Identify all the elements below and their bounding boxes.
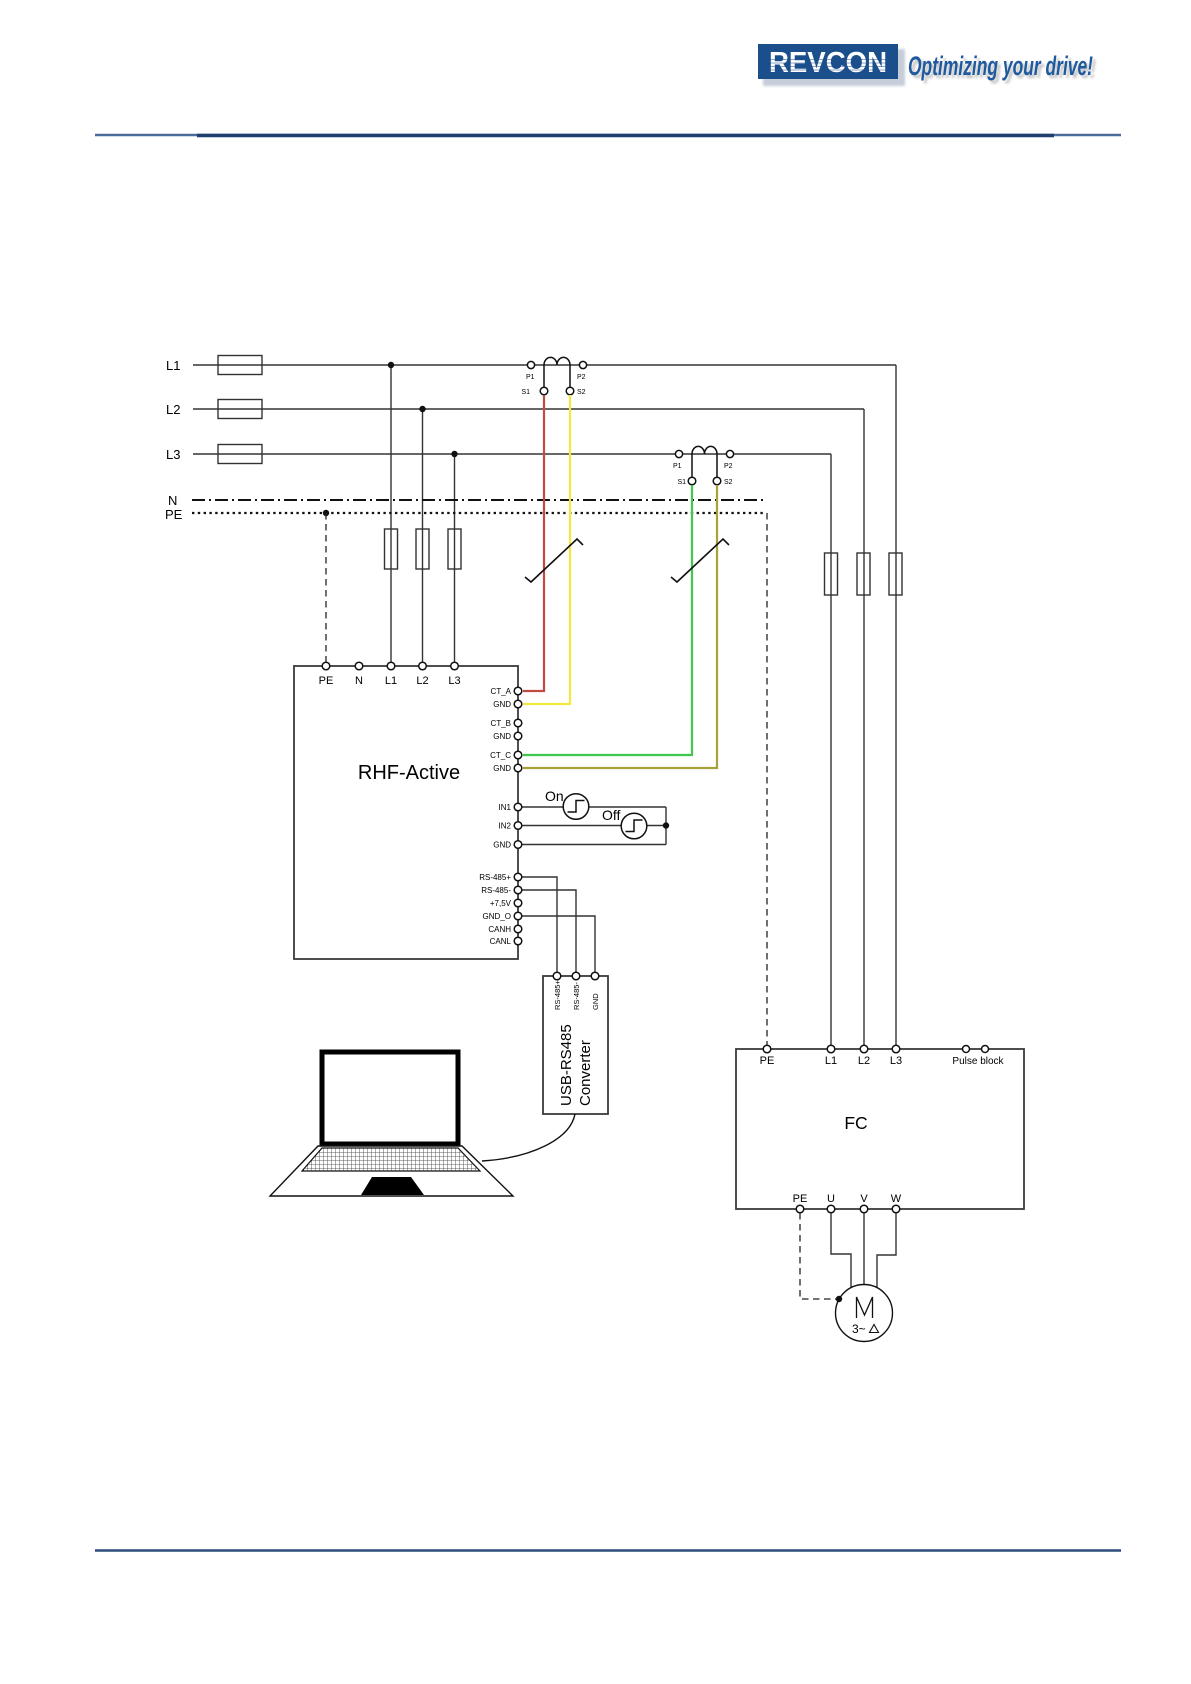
svg-text:RS-485-: RS-485- <box>481 886 511 895</box>
svg-text:CT_A: CT_A <box>491 687 512 696</box>
terminal RHF RS-485+ <box>514 873 522 881</box>
svg-text:P2: P2 <box>577 374 586 381</box>
svg-text:CT_C: CT_C <box>490 751 511 760</box>
terminal CT1 P2 <box>579 361 586 368</box>
wire L1 bus <box>193 364 896 366</box>
terminal RHF GND (CT_C) <box>514 764 522 772</box>
svg-text:Optimizing your drive!: Optimizing your drive! <box>908 51 1093 81</box>
wire IN2 to Off <box>522 825 621 827</box>
wire W to motor <box>877 1213 896 1288</box>
fuse F1 (L1 horizontal) <box>218 356 262 375</box>
terminal RHF GND (CT_A) <box>514 700 522 708</box>
svg-text:Pulse block: Pulse block <box>952 1056 1004 1067</box>
terminal CT2 S2 <box>713 477 721 485</box>
terminal CT2 P1 <box>675 450 682 457</box>
svg-text:GND: GND <box>591 993 600 1010</box>
terminal CT1 P1 <box>527 361 534 368</box>
svg-text:PE: PE <box>793 1193 808 1205</box>
terminal FC W <box>892 1205 900 1213</box>
wire GND loop <box>522 844 666 846</box>
fuse F7 (FC L1) <box>825 553 838 595</box>
terminal RHF IN2 <box>514 822 522 830</box>
wire RS-485- <box>522 890 576 976</box>
laptop body <box>270 1146 513 1196</box>
terminal RHF L2 <box>419 662 427 670</box>
terminal FC V <box>860 1205 868 1213</box>
pushbutton On <box>563 794 589 820</box>
terminal converter RS-485+ <box>553 972 561 980</box>
svg-text:W: W <box>891 1193 902 1205</box>
terminal RHF GND (IN) <box>514 841 522 849</box>
wire IN1 to On <box>522 806 563 808</box>
bottom rule <box>95 1549 1121 1551</box>
laptop <box>270 1052 513 1196</box>
svg-text:L3: L3 <box>448 675 460 687</box>
wire L1 right drop to FC <box>895 365 897 1049</box>
wire GND_O <box>522 916 595 976</box>
terminal FC pulse block 2 <box>982 1046 989 1053</box>
terminal RHF +7,5V <box>514 899 522 907</box>
svg-text:FC: FC <box>844 1113 867 1133</box>
svg-text:S2: S2 <box>577 389 586 396</box>
terminal converter RS-485- <box>572 972 580 980</box>
svg-text:IN1: IN1 <box>499 803 512 812</box>
fuse F3 (L3 horizontal) <box>218 445 262 464</box>
svg-text:CANH: CANH <box>488 925 511 934</box>
terminal RHF PE <box>322 662 330 670</box>
svg-text:L3: L3 <box>166 447 180 462</box>
svg-text:N: N <box>168 493 177 508</box>
terminal FC PE <box>763 1045 771 1053</box>
cable converter to laptop <box>482 1114 575 1161</box>
fuse F4 (RHF L1) <box>385 529 398 569</box>
svg-text:+7,5V: +7,5V <box>490 899 512 908</box>
svg-text:On: On <box>545 788 564 804</box>
svg-text:P1: P1 <box>673 463 682 470</box>
node IN2 junction <box>663 822 669 828</box>
svg-text:RS-485+: RS-485+ <box>479 873 511 882</box>
svg-text:L1: L1 <box>825 1055 837 1067</box>
svg-text:S2: S2 <box>724 479 733 486</box>
RHF-Active box U1 <box>294 666 518 959</box>
svg-text:GND: GND <box>493 764 511 773</box>
terminal RHF L1 <box>387 662 395 670</box>
wire GND yellow <box>523 395 570 704</box>
laptop screen <box>322 1052 458 1144</box>
svg-text:L1: L1 <box>385 675 397 687</box>
terminal RHF CT_B <box>514 719 522 727</box>
wire GND olive <box>523 485 717 768</box>
wire L3 right drop to FC <box>830 454 832 1049</box>
terminal RHF GND_O <box>514 912 522 920</box>
wire PE dashed drop to RHF <box>325 513 327 666</box>
svg-text:S1: S1 <box>521 389 530 396</box>
terminal CT1 S2 <box>566 387 574 395</box>
FC box U3 <box>736 1049 1024 1209</box>
wire L3 drop to RHF <box>454 454 456 666</box>
terminal RHF CT_A <box>514 687 522 695</box>
svg-text:U: U <box>827 1193 835 1205</box>
logo shadow <box>763 49 905 86</box>
terminal RHF IN1 <box>514 803 522 811</box>
wire L3 bus <box>193 453 831 455</box>
svg-text:GND_O: GND_O <box>483 912 511 921</box>
svg-text:Converter: Converter <box>577 1040 594 1106</box>
fuse F6 (RHF L3) <box>448 529 461 569</box>
laptop keyboard <box>302 1148 480 1171</box>
svg-text:USB-RS485: USB-RS485 <box>558 1024 575 1106</box>
node L1 junction <box>388 362 394 368</box>
current transformer CT1 winding <box>544 357 570 387</box>
svg-text:GND: GND <box>493 732 511 741</box>
svg-text:Off: Off <box>602 807 621 823</box>
svg-text:RS-485+: RS-485+ <box>553 980 562 1010</box>
top rule <box>95 134 1121 137</box>
PE bus dotted <box>192 512 766 514</box>
wire L2 bus <box>193 408 864 410</box>
svg-text:IN2: IN2 <box>499 822 512 831</box>
wire PE dashed drop to FC <box>766 513 768 1049</box>
terminal FC L2 <box>860 1045 868 1053</box>
svg-text:L2: L2 <box>858 1055 870 1067</box>
switch S2 (CT2 secondary) <box>671 539 729 582</box>
terminal converter GND <box>591 972 599 980</box>
RHF right-side wires <box>522 807 666 976</box>
delta symbol <box>870 1325 879 1333</box>
wire PE dashed to motor <box>800 1213 838 1299</box>
svg-text:CT_B: CT_B <box>491 719 511 728</box>
svg-text:P2: P2 <box>724 463 733 470</box>
terminal RHF N <box>355 662 363 670</box>
terminal RHF RS-485- <box>514 886 522 894</box>
svg-text:L2: L2 <box>166 402 180 417</box>
wire V to motor <box>863 1213 865 1285</box>
svg-text:L1: L1 <box>166 358 180 373</box>
terminal CT1 S1 <box>540 387 548 395</box>
svg-text:PE: PE <box>165 507 183 522</box>
terminal FC L1 <box>827 1045 835 1053</box>
node L3 junction <box>451 451 457 457</box>
svg-text:CANL: CANL <box>490 937 512 946</box>
pushbutton Off <box>621 813 647 839</box>
motor letter M <box>857 1297 873 1318</box>
svg-text:L2: L2 <box>416 675 428 687</box>
svg-text:PE: PE <box>319 675 334 687</box>
wire L2 right drop to FC <box>863 409 865 1049</box>
laptop touchpad <box>361 1177 424 1195</box>
USB-RS485 converter box U2 <box>543 976 608 1114</box>
wire right bus of On/Off loop <box>665 807 667 845</box>
svg-text:GND: GND <box>493 841 511 850</box>
node PE motor junction <box>836 1296 842 1302</box>
node L2 junction <box>419 406 425 412</box>
svg-text:N: N <box>355 675 363 687</box>
logo box REVCON <box>758 44 898 79</box>
svg-text:PE: PE <box>760 1055 775 1067</box>
svg-text:S1: S1 <box>677 479 686 486</box>
terminal RHF CT_C <box>514 751 522 759</box>
terminal RHF CANL <box>514 937 522 945</box>
svg-text:GND: GND <box>493 700 511 709</box>
svg-text:L3: L3 <box>890 1055 902 1067</box>
terminal CT2 S1 <box>688 477 696 485</box>
fuse F5 (RHF L2) <box>416 529 429 569</box>
svg-text:RHF-Active: RHF-Active <box>358 762 460 784</box>
wire L2 drop to RHF <box>422 409 424 666</box>
wire L1 drop to RHF <box>390 365 392 666</box>
fuse F9 (FC L3) <box>889 553 902 595</box>
svg-text:V: V <box>860 1193 868 1205</box>
svg-text:RS-485-: RS-485- <box>572 982 581 1010</box>
svg-text:P1: P1 <box>526 374 535 381</box>
current transformer CT2 winding <box>692 446 717 477</box>
wire CT_C green <box>523 485 692 755</box>
wire RS-485+ <box>522 877 557 976</box>
svg-text:3~: 3~ <box>852 1322 866 1336</box>
terminal RHF GND (CT_B) <box>514 732 522 740</box>
terminal RHF L3 <box>451 662 459 670</box>
terminal FC U <box>827 1205 835 1213</box>
fuse F8 (FC L2) <box>857 553 870 595</box>
terminal FC L3 <box>892 1045 900 1053</box>
terminal RHF CANH <box>514 925 522 933</box>
terminal FC PE out <box>796 1205 804 1213</box>
terminal CT2 P2 <box>726 450 733 457</box>
terminal FC pulse block 1 <box>963 1046 970 1053</box>
switch S1 (CT1 secondary) <box>525 539 583 582</box>
motor M1 <box>836 1285 893 1342</box>
wire CT_A red <box>523 395 544 691</box>
wire U to motor <box>831 1213 851 1288</box>
N bus dash-dot <box>192 499 764 501</box>
fuse F2 (L2 horizontal) <box>218 400 262 419</box>
node PE junction <box>323 510 329 516</box>
